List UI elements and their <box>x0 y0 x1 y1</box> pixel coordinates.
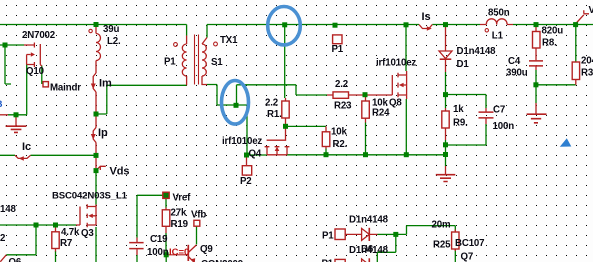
svg-text:D1n4148: D1n4148 <box>457 46 497 57</box>
svg-text:R9.: R9. <box>453 118 468 129</box>
svg-text:TX1: TX1 <box>220 35 238 46</box>
svg-text:Is: Is <box>422 11 431 23</box>
svg-text:C7: C7 <box>493 105 505 116</box>
svg-text:R8.: R8. <box>542 38 557 49</box>
svg-text:R19: R19 <box>171 219 189 230</box>
svg-text:39u: 39u <box>103 24 119 35</box>
svg-text:BC107: BC107 <box>455 238 484 249</box>
svg-text:148: 148 <box>0 204 16 215</box>
svg-text:R25: R25 <box>433 240 451 251</box>
svg-text:IC=0: IC=0 <box>169 247 189 258</box>
svg-text:2.2: 2.2 <box>335 79 348 90</box>
svg-text:850n: 850n <box>488 8 510 19</box>
svg-text:R2.: R2. <box>333 139 348 150</box>
svg-text:D1n4148: D1n4148 <box>349 245 389 256</box>
svg-text:C4: C4 <box>508 56 521 67</box>
svg-text:R7: R7 <box>60 238 72 249</box>
svg-text:Q4: Q4 <box>249 149 262 160</box>
svg-text:4.7k: 4.7k <box>61 227 80 238</box>
svg-text:2.2: 2.2 <box>265 98 278 109</box>
svg-text:2: 2 <box>0 233 5 244</box>
svg-text:2N7002: 2N7002 <box>22 30 55 41</box>
svg-text:27k: 27k <box>171 208 187 219</box>
svg-text:P1: P1 <box>322 230 334 241</box>
svg-text:irf1010ez: irf1010ez <box>222 136 262 147</box>
svg-text:Vref: Vref <box>173 193 192 204</box>
svg-text:390u: 390u <box>506 68 528 79</box>
svg-text:100n: 100n <box>493 121 515 132</box>
svg-text:P1: P1 <box>322 259 334 262</box>
svg-text:R23: R23 <box>334 101 352 112</box>
svg-text:L2.: L2. <box>107 36 121 47</box>
svg-text:Im: Im <box>99 78 112 90</box>
svg-text:BSC042N03S_L1: BSC042N03S_L1 <box>52 190 128 201</box>
svg-text:100n: 100n <box>147 247 169 258</box>
svg-text:820u: 820u <box>542 26 564 37</box>
svg-text:D1: D1 <box>457 59 470 70</box>
svg-text:Ip: Ip <box>98 127 108 139</box>
svg-text:Vds: Vds <box>110 166 130 178</box>
svg-text:R24: R24 <box>372 108 390 119</box>
svg-text:D1n4148: D1n4148 <box>349 214 389 225</box>
svg-text:Q9: Q9 <box>200 244 213 255</box>
svg-text:Q3: Q3 <box>81 228 94 239</box>
svg-text:C19: C19 <box>150 234 168 245</box>
svg-text:V: V <box>589 5 593 16</box>
svg-text:Q7: Q7 <box>461 251 474 262</box>
svg-text:Maindr: Maindr <box>50 83 81 94</box>
svg-text:1k: 1k <box>453 104 464 115</box>
svg-text:Ic: Ic <box>22 141 31 153</box>
svg-text:Q8: Q8 <box>389 98 402 109</box>
svg-text:P2: P2 <box>240 176 252 187</box>
svg-text:20m: 20m <box>432 220 451 231</box>
svg-text:L1: L1 <box>492 31 504 42</box>
svg-text:10k: 10k <box>331 127 347 138</box>
svg-text:R31: R31 <box>581 68 593 79</box>
svg-text:S1: S1 <box>211 57 223 68</box>
svg-text:R1.: R1. <box>267 109 282 120</box>
svg-text:Q10: Q10 <box>26 66 44 77</box>
svg-text:P1: P1 <box>332 44 344 55</box>
svg-text:204: 204 <box>581 56 593 67</box>
svg-text:Vfb: Vfb <box>191 210 206 221</box>
svg-text:Q6: Q6 <box>9 257 22 262</box>
svg-text:P1: P1 <box>164 57 176 68</box>
svg-text:irf1010ez: irf1010ez <box>376 58 416 69</box>
